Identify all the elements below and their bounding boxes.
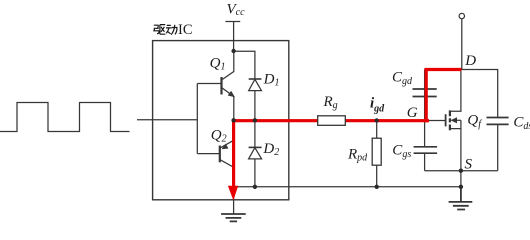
wire Cgs bottom to source rail xyxy=(424,153,426,171)
driver IC box xyxy=(153,41,289,200)
svg-text:Q1: Q1 xyxy=(210,55,226,72)
capacitor Cgd plates xyxy=(413,89,437,97)
node Rpd bottom xyxy=(375,185,379,189)
red arrowhead to ground xyxy=(228,186,238,201)
svg-text:Rpd: Rpd xyxy=(347,147,368,164)
MOSFET Qf drain lead xyxy=(450,70,461,112)
diode D2 top wire xyxy=(254,120,256,147)
node diode junction xyxy=(253,118,257,122)
ground symbol right xyxy=(449,187,473,210)
svg-text:IC: IC xyxy=(178,22,193,38)
node output junction xyxy=(231,118,235,122)
drain terminal circle xyxy=(459,13,464,18)
wire Cds bottom to source rail xyxy=(497,124,499,170)
svg-text:S: S xyxy=(465,156,473,172)
resistor Rpd xyxy=(372,138,381,165)
node below Vcc xyxy=(231,49,235,53)
Vcc terminal bar xyxy=(225,21,240,23)
svg-text:Q2: Q2 xyxy=(211,127,227,144)
wire S node to ground rail xyxy=(460,171,462,187)
transistor Q2 emitter wire xyxy=(220,140,234,148)
red path up through Cgd xyxy=(425,70,428,123)
input square wave xyxy=(0,103,130,132)
svg-text:G: G xyxy=(407,105,418,121)
svg-text:Cgd: Cgd xyxy=(392,70,413,88)
transistor Q1 emitter arrow xyxy=(228,91,235,98)
svg-text:D1: D1 xyxy=(263,72,280,89)
transistor Q1 emitter wire xyxy=(222,88,234,121)
node S junction xyxy=(459,169,463,173)
MOSFET Qf gate bar xyxy=(445,114,447,126)
svg-text:igd: igd xyxy=(370,96,385,115)
wire G node to MOSFET gate xyxy=(425,120,446,122)
node D2 bottom xyxy=(253,185,257,189)
wire Q2 emitter to output node xyxy=(233,120,235,140)
MOSFET Qf body lead xyxy=(452,119,461,121)
source rail xyxy=(425,170,498,172)
label driver IC chinese xyxy=(153,25,177,35)
MOSFET Qf body arrow xyxy=(451,117,458,123)
wire G node up through Cgd to D (under red) xyxy=(424,70,426,121)
transistor Q1 collector wire xyxy=(222,51,234,80)
wire to left ground xyxy=(233,187,235,214)
wire Vcc to node xyxy=(233,22,235,52)
MOSFET Qf source down wire xyxy=(460,129,462,171)
svg-text:D: D xyxy=(464,53,476,69)
wire i_gd node to Rpd xyxy=(376,121,378,139)
diode D1 bottom wire xyxy=(254,91,256,120)
diode D2 bottom wire xyxy=(254,159,256,187)
svg-text:D2: D2 xyxy=(262,141,279,158)
red current path horizontal xyxy=(232,70,462,187)
transistor Q1 base wire xyxy=(197,83,221,85)
diode D2 triangle xyxy=(249,148,262,159)
capacitor Cgs plates xyxy=(414,147,438,153)
wire output node under red xyxy=(234,119,429,121)
transistor Q2 emitter arrow xyxy=(222,144,229,150)
wire Cgs top from G node xyxy=(424,121,426,147)
wire input to driver IC xyxy=(137,119,197,121)
svg-text:Cds: Cds xyxy=(513,114,530,132)
ground rail xyxy=(234,186,461,188)
svg-text:Cgs: Cgs xyxy=(392,143,411,161)
resistor Rg xyxy=(318,116,346,126)
wire Rpd to ground rail xyxy=(376,165,378,187)
transistor Q1 base bar xyxy=(220,77,222,95)
svg-text:Vcc: Vcc xyxy=(227,2,246,19)
svg-text:Qf: Qf xyxy=(467,113,482,131)
diode D1 triangle xyxy=(249,79,262,90)
MOSFET Qf source lead xyxy=(450,120,461,128)
capacitor Cds plates xyxy=(487,118,509,125)
base coupling vertical wire xyxy=(196,84,198,154)
transistor Q2 base wire xyxy=(197,153,220,155)
MOSFET Qf channel segments xyxy=(449,110,451,130)
drain terminal wire xyxy=(461,19,463,70)
node i_gd junction xyxy=(375,118,379,122)
red current path vertical at driver xyxy=(232,119,235,186)
wire node to D1 top xyxy=(234,51,255,79)
transistor Q2 collector wire xyxy=(220,160,234,187)
red path to drain xyxy=(424,68,461,71)
wire D node to Cds branch xyxy=(461,70,497,118)
transistor Q2 base bar xyxy=(219,146,221,163)
diode D1 cathode bar xyxy=(249,78,262,80)
svg-text:Rg: Rg xyxy=(323,94,338,111)
ground symbol left xyxy=(221,214,246,221)
diode D2 cathode bar xyxy=(249,146,262,148)
node S ground xyxy=(459,185,463,189)
